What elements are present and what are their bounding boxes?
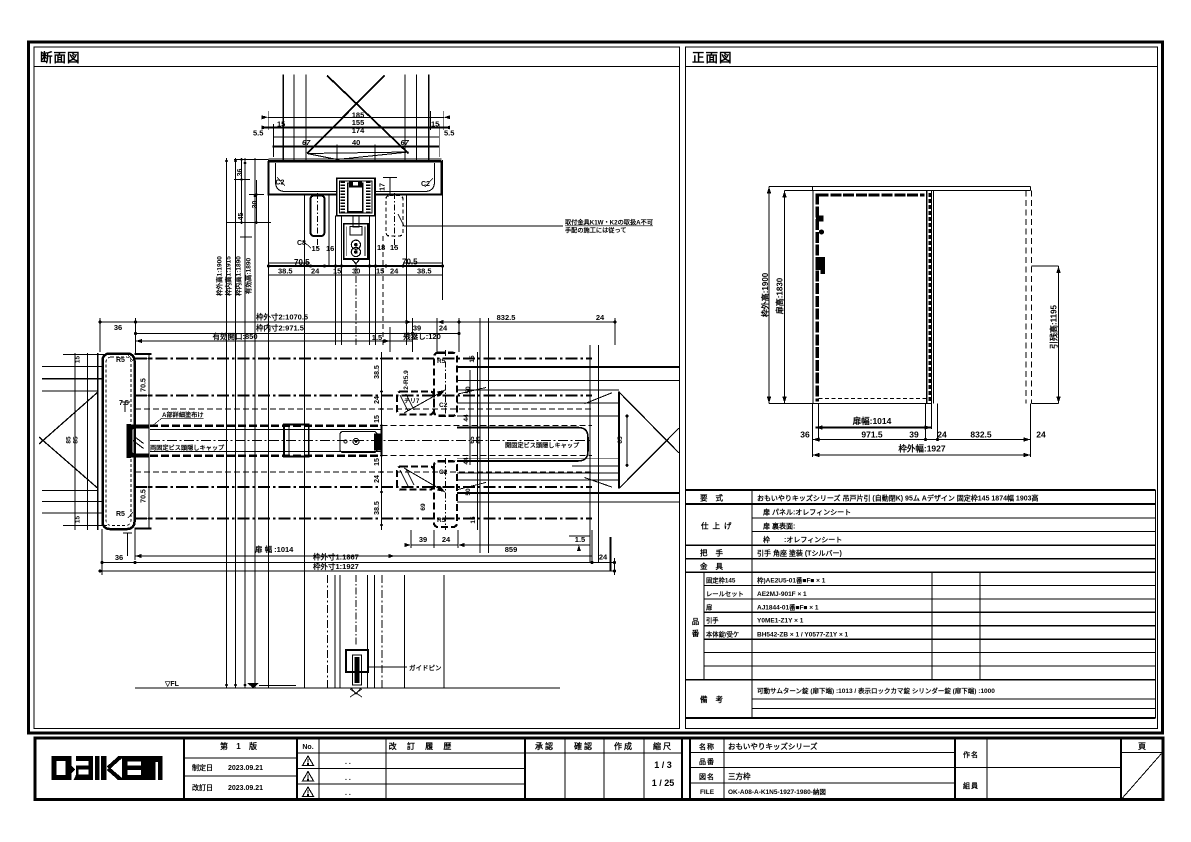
svg-text:縮尺: 縮尺: [653, 741, 673, 751]
right panel title bar line: [686, 66, 1158, 68]
svg-text:C2: C2: [276, 180, 285, 187]
left wall X brace: [39, 392, 98, 444]
svg-text:65: 65: [617, 436, 624, 444]
svg-text:仕上げ: 仕上げ: [700, 521, 736, 531]
note leader (top section): [398, 214, 563, 226]
upper arrow: [404, 390, 445, 413]
hanger rail box outer: [337, 178, 375, 215]
title block texts: [192, 741, 1146, 797]
svg-text:15: 15: [374, 458, 381, 466]
lower arrow: [404, 468, 445, 492]
hanger bolt: [353, 216, 359, 227]
svg-text:5.5: 5.5: [253, 129, 263, 138]
svg-text:85: 85: [73, 436, 80, 444]
svg-text:859: 859: [505, 545, 518, 554]
svg-text:本体錠/受ケ: 本体錠/受ケ: [705, 629, 739, 638]
17 dim: [389, 178, 391, 196]
svg-text:50: 50: [465, 386, 472, 394]
height dim line 3: [244, 158, 246, 688]
svg-text:C2: C2: [439, 402, 448, 409]
svg-text:971.5: 971.5: [861, 430, 883, 440]
plan labels: [66, 355, 625, 524]
right panel border: [686, 47, 1158, 729]
svg-text:取付金具K1W・K2の取扱A不可: 取付金具K1W・K2の取扱A不可: [565, 219, 653, 227]
bottom dim extension verticals: [812, 404, 814, 458]
svg-text:30: 30: [252, 201, 259, 209]
svg-text:扉 裏表面:: 扉 裏表面:: [762, 521, 795, 530]
svg-text:両固定ビス頭隠しキャップ: 両固定ビス頭隠しキャップ: [150, 444, 225, 452]
pocket depth lines: [457, 389, 619, 391]
hanger body: [344, 224, 368, 259]
svg-text:24: 24: [311, 267, 320, 276]
dim chain 971.5 row: [136, 333, 460, 335]
left jamb profile: [103, 354, 135, 530]
C8 leader: [303, 241, 311, 248]
svg-text:69: 69: [420, 503, 427, 511]
svg-text:24: 24: [937, 430, 947, 440]
pocket hatch: [133, 441, 144, 449]
svg-text:枠外高:1900: 枠外高:1900: [760, 272, 770, 318]
right section: [689, 738, 691, 800]
svg-text:24: 24: [599, 553, 608, 562]
right wall X brace: [619, 392, 679, 453]
svg-text:1 / 3: 1 / 3: [654, 760, 672, 770]
pocket door face line: [148, 425, 150, 458]
svg-text:67: 67: [401, 138, 410, 147]
svg-text:扉 パネル:オレフィンシート: 扉 パネル:オレフィンシート: [762, 508, 851, 517]
svg-text:1.5: 1.5: [575, 535, 585, 544]
svg-text:38.5: 38.5: [374, 365, 381, 379]
svg-text:OK-A08-A-K1N5-1927-1980-納図: OK-A08-A-K1N5-1927-1980-納図: [728, 787, 826, 796]
left jamb dims 70.5: [148, 354, 150, 530]
svg-text:174: 174: [352, 126, 365, 135]
svg-text:名称: 名称: [699, 742, 715, 751]
svg-text:24: 24: [374, 396, 381, 404]
svg-text:. .: . .: [345, 790, 351, 797]
height dim line 2: [235, 158, 237, 688]
svg-text:枠 :オレフィンシート: 枠 :オレフィンシート: [763, 535, 842, 544]
rev date col: [296, 738, 298, 800]
svg-text:15: 15: [470, 516, 477, 524]
height dim line 4: [254, 158, 256, 688]
svg-text:36: 36: [114, 323, 122, 332]
outer drawing border: [29, 42, 1163, 733]
7.5 dim: [121, 401, 130, 403]
svg-text:24: 24: [596, 313, 605, 322]
dim line 1014: [816, 427, 932, 429]
C2 label right: [425, 178, 433, 187]
svg-text:枠外寸2:1070.5: 枠外寸2:1070.5: [255, 312, 308, 322]
svg-text:ガイドピン: ガイドピン: [409, 663, 442, 672]
svg-text:承認: 承認: [535, 741, 555, 751]
svg-text:15: 15: [469, 355, 476, 363]
dim row 174: [274, 136, 440, 138]
svg-text:▽FL: ▽FL: [164, 681, 180, 688]
svg-text:AJ1844-01番■F■ × 1: AJ1844-01番■F■ × 1: [757, 602, 819, 611]
svg-text:15: 15: [277, 120, 285, 129]
svg-text:832.5: 832.5: [497, 313, 516, 322]
svg-text:枠外寸1:1867: 枠外寸1:1867: [312, 552, 359, 562]
left wall horiz lines: [42, 365, 102, 367]
svg-text:44: 44: [463, 457, 470, 465]
svg-text:扉: 扉: [706, 602, 713, 611]
svg-text:金具: 金具: [699, 561, 731, 571]
dim ticks row: [269, 274, 443, 276]
svg-text:可動サムターン錠 (扉下端) :1013 / 表示ロックカマ: 可動サムターン錠 (扉下端) :1013 / 表示ロックカマ錠 シリンダー錠 (…: [757, 686, 995, 695]
svg-text:有効開口:850: 有効開口:850: [212, 331, 257, 341]
svg-text:固定枠145: 固定枠145: [706, 576, 736, 585]
svg-text:44: 44: [463, 414, 470, 422]
door band top edge: [150, 424, 382, 427]
svg-text:手配の施工には従って: 手配の施工には従って: [565, 227, 627, 235]
svg-text:18: 18: [377, 243, 385, 252]
left dim 1900: [768, 187, 770, 404]
svg-text:引手: 引手: [706, 616, 719, 625]
dim row 5.5: [266, 127, 447, 129]
svg-text:備考: 備考: [700, 694, 731, 704]
svg-text:把手: 把手: [700, 548, 731, 558]
lock body: [816, 257, 825, 274]
below-header verticals: [304, 195, 306, 689]
svg-text:2-R5.9: 2-R5.9: [403, 370, 410, 390]
svg-text:30: 30: [352, 267, 360, 276]
svg-text:1.5: 1.5: [372, 333, 382, 342]
svg-text:39: 39: [419, 535, 427, 544]
lower tall profile: [434, 461, 457, 527]
svg-text:65: 65: [476, 436, 483, 444]
header top thick band: [269, 160, 442, 163]
svg-text:C2: C2: [421, 181, 430, 188]
dim 38.5/24/15 column: [381, 352, 383, 530]
svg-text:38.5: 38.5: [374, 501, 381, 515]
svg-text:24: 24: [390, 267, 399, 276]
svg-text:C2: C2: [439, 469, 448, 476]
door band inner lines: [150, 429, 382, 431]
svg-text:枠内寸2:971.5: 枠内寸2:971.5: [255, 323, 304, 333]
right pocket liner dashed: [386, 196, 403, 237]
door band bottom edge: [150, 454, 382, 457]
svg-text:番: 番: [691, 628, 700, 638]
svg-text:改訂日: 改訂日: [192, 783, 213, 792]
1927 dim: [100, 570, 615, 572]
door edge cap: [284, 425, 309, 457]
upper small profile: [397, 392, 434, 415]
svg-text:組員: 組員: [963, 781, 979, 790]
No. col: [318, 738, 320, 800]
door band right end: [381, 426, 383, 456]
svg-text:引手 角座 塗装 (Tシルバー): 引手 角座 塗装 (Tシルバー): [757, 549, 842, 558]
svg-text:枠外高1:1900: 枠外高1:1900: [215, 256, 224, 296]
svg-text:38.5: 38.5: [278, 267, 293, 276]
door top thick dotted rail: [818, 193, 925, 196]
dim 50/44 column: [469, 370, 471, 465]
svg-text:断面図: 断面図: [40, 50, 81, 65]
svg-text:改 訂 履 歴: 改 訂 履 歴: [389, 741, 456, 751]
svg-text:24: 24: [1036, 430, 1046, 440]
svg-text:R5: R5: [437, 517, 446, 524]
dim row 67/40/67: [273, 145, 440, 147]
C2 label left: [277, 177, 285, 186]
svg-text:5.5: 5.5: [444, 129, 454, 138]
svg-text:枠外幅:1927: 枠外幅:1927: [898, 444, 946, 454]
door lock piece: [340, 432, 377, 453]
svg-text:2023.09.21: 2023.09.21: [228, 765, 263, 772]
rail dotted columns: [341, 181, 346, 212]
svg-text:図名: 図名: [699, 772, 715, 781]
guide pin: [346, 650, 368, 672]
svg-text:おもいやりキッズシリーズ: おもいやりキッズシリーズ: [728, 741, 818, 751]
revision triangles: [303, 756, 314, 797]
1867 dim: [102, 562, 615, 564]
svg-text:17: 17: [380, 183, 387, 191]
top dim chain 1070.5: [100, 321, 615, 323]
svg-text:R5: R5: [116, 357, 125, 364]
svg-text:扉幅:1014: 扉幅:1014: [852, 416, 892, 426]
DAIKEN logo: [52, 756, 163, 780]
FL line: [135, 687, 560, 689]
door left stile dotted thick: [816, 194, 819, 402]
left panel border: [34, 47, 680, 729]
svg-text:15: 15: [376, 267, 384, 276]
guide pin leader: [368, 666, 407, 668]
left pocket liner: [311, 196, 325, 237]
svg-text:40: 40: [352, 138, 360, 147]
svg-text:R5: R5: [437, 358, 446, 365]
1014 dim line: [135, 555, 592, 557]
jamb face line extensions: [135, 353, 152, 355]
svg-text:作成: 作成: [614, 741, 634, 751]
row lines: [686, 503, 1156, 505]
jamb inner dashed: [106, 357, 131, 526]
svg-text:. .: . .: [345, 775, 351, 782]
svg-text:15: 15: [333, 267, 341, 276]
svg-text:15: 15: [390, 243, 398, 252]
svg-text:2023.09.21: 2023.09.21: [228, 785, 263, 792]
65 dim line: [626, 416, 628, 465]
header inner line w/ rounded corners: [276, 163, 435, 192]
svg-text:確認: 確認: [574, 741, 594, 751]
svg-text:67: 67: [302, 138, 311, 147]
svg-text:枠外寸1:1927: 枠外寸1:1927: [312, 561, 359, 571]
left wall dim 15 verticals: [74, 353, 76, 530]
svg-text:15: 15: [374, 415, 381, 423]
door right stile dotted thick: [926, 191, 928, 404]
svg-text:頁: 頁: [1138, 742, 1146, 751]
svg-text:. .: . .: [345, 759, 351, 766]
door center dash-dot line: [150, 440, 592, 442]
svg-text:扉 幅 :1014: 扉 幅 :1014: [254, 544, 294, 554]
left panel title bar line: [34, 66, 680, 68]
hanger wheel: [351, 240, 360, 249]
left small dims 36/30/45: [241, 159, 243, 224]
svg-text:36: 36: [800, 430, 810, 440]
svg-text:Y0ME1-Z1Y × 1: Y0ME1-Z1Y × 1: [757, 618, 804, 625]
svg-text:24: 24: [374, 475, 381, 483]
svg-text:制定日: 制定日: [192, 763, 213, 772]
svg-text:残塁し:120: 残塁し:120: [403, 331, 441, 341]
col lines: [751, 490, 753, 718]
lower small profile: [397, 467, 434, 490]
height dim line 1: [226, 158, 228, 688]
hanger point: [352, 259, 360, 264]
wood blocking X brace: [327, 76, 409, 154]
svg-text:枠内高1:1915: 枠内高1:1915: [224, 256, 233, 296]
svg-text:832.5: 832.5: [970, 430, 992, 440]
header top thin line: [269, 158, 442, 160]
right wall studs: [404, 75, 406, 161]
title block outer: [35, 738, 1163, 800]
svg-text:70.5: 70.5: [402, 258, 418, 267]
right pocket cap piece: [457, 428, 588, 462]
svg-text:おもいやりキッズシリーズ 吊戸片引 (自動閉K) 95ム: おもいやりキッズシリーズ 吊戸片引 (自動閉K) 95ム Aデザイン 固定枠14…: [757, 494, 1039, 503]
svg-text:作名: 作名: [963, 750, 979, 759]
top dim row 15/185: [268, 116, 444, 118]
svg-text:39: 39: [909, 430, 919, 440]
main dim line thick: [269, 265, 443, 267]
svg-text:24: 24: [442, 535, 451, 544]
track dashed lines: [135, 358, 592, 360]
svg-text:50: 50: [465, 488, 472, 496]
svg-text:45: 45: [238, 213, 245, 221]
6 dim tick: [123, 532, 132, 534]
svg-text:A部詳細塗布け: A部詳細塗布け: [162, 411, 204, 419]
svg-text:15: 15: [75, 356, 82, 364]
svg-text:レールセット: レールセット: [706, 590, 744, 598]
wall corner braces: [585, 393, 613, 404]
dim line 1927: [813, 454, 1031, 456]
door outer: [813, 191, 932, 404]
rail cap black: [349, 181, 362, 187]
svg-text:36: 36: [115, 553, 123, 562]
svg-text:三方枠: 三方枠: [728, 771, 751, 781]
svg-text:BH542-ZB × 1 / Y0577-Z1Y × 1: BH542-ZB × 1 / Y0577-Z1Y × 1: [757, 631, 849, 638]
bottom dims of plan: [99, 529, 617, 575]
top rail double line: [813, 186, 1031, 188]
svg-text:AE2MJ-901F × 1: AE2MJ-901F × 1: [757, 591, 807, 598]
svg-text:15: 15: [431, 120, 439, 129]
svg-text:枠)AE2U5-01番■F■ × 1: 枠)AE2U5-01番■F■ × 1: [757, 576, 826, 585]
dim 850 row: [136, 340, 413, 342]
svg-text:枠内高1:1890: 枠内高1:1890: [234, 256, 243, 296]
svg-text:15: 15: [75, 516, 82, 524]
50 dim leaders: [458, 388, 486, 395]
svg-text:R5: R5: [116, 511, 125, 518]
svg-text:FILE: FILE: [700, 789, 715, 796]
svg-text:正面図: 正面図: [692, 51, 733, 65]
svg-text:No.: No.: [302, 744, 313, 751]
svg-text:70.5: 70.5: [141, 378, 148, 392]
svg-text:C8: C8: [297, 240, 306, 247]
spec table frame: [686, 489, 1156, 491]
left wall studs: [282, 75, 284, 161]
approval cols: [564, 738, 566, 800]
right opening dashed verticals: [1025, 191, 1027, 404]
jamb pocket C profile: [127, 424, 132, 458]
shim triangle: [307, 152, 409, 160]
fixed frame vertical pair: [479, 318, 481, 553]
svg-text:有効高:1890: 有効高:1890: [244, 258, 253, 295]
svg-text:品番: 品番: [699, 757, 715, 766]
dim chain line: [813, 439, 1031, 441]
svg-text:品: 品: [692, 617, 700, 626]
door bottom dashed: [819, 398, 927, 400]
rail slot: [348, 183, 363, 212]
svg-text:85: 85: [66, 436, 73, 444]
svg-text:36: 36: [237, 169, 244, 177]
svg-text:7.5: 7.5: [119, 400, 129, 407]
header frame outline: [269, 161, 442, 195]
svg-text:第 1 版: 第 1 版: [220, 741, 260, 751]
svg-text:引残高:1195: 引残高:1195: [1049, 304, 1059, 349]
daiken cell divider: [183, 738, 185, 800]
svg-text:16: 16: [326, 244, 334, 253]
svg-text:70.5: 70.5: [141, 489, 148, 503]
left dim 1830: [784, 191, 786, 404]
hardware marks: [816, 216, 824, 222]
svg-text:1 / 25: 1 / 25: [652, 778, 675, 788]
svg-text:70.5: 70.5: [294, 258, 310, 267]
right wall horiz pairs: [457, 366, 680, 368]
svg-text:チリ7: チリ7: [404, 398, 420, 405]
upper tall profile: [434, 353, 457, 416]
right dim 1195: [1058, 266, 1060, 404]
svg-text:15: 15: [312, 244, 320, 253]
svg-text:扉高:1830: 扉高:1830: [775, 277, 785, 315]
page diagonal: [1122, 754, 1162, 799]
right wall verticals: [589, 345, 591, 563]
39/24 mini dim: [410, 530, 412, 548]
svg-text:開固定ビス頭隠しキャップ: 開固定ビス頭隠しキャップ: [505, 442, 580, 450]
svg-text:要式: 要式: [700, 493, 731, 503]
svg-text:38.5: 38.5: [417, 267, 432, 276]
70.5 partial lines: [269, 262, 311, 264]
